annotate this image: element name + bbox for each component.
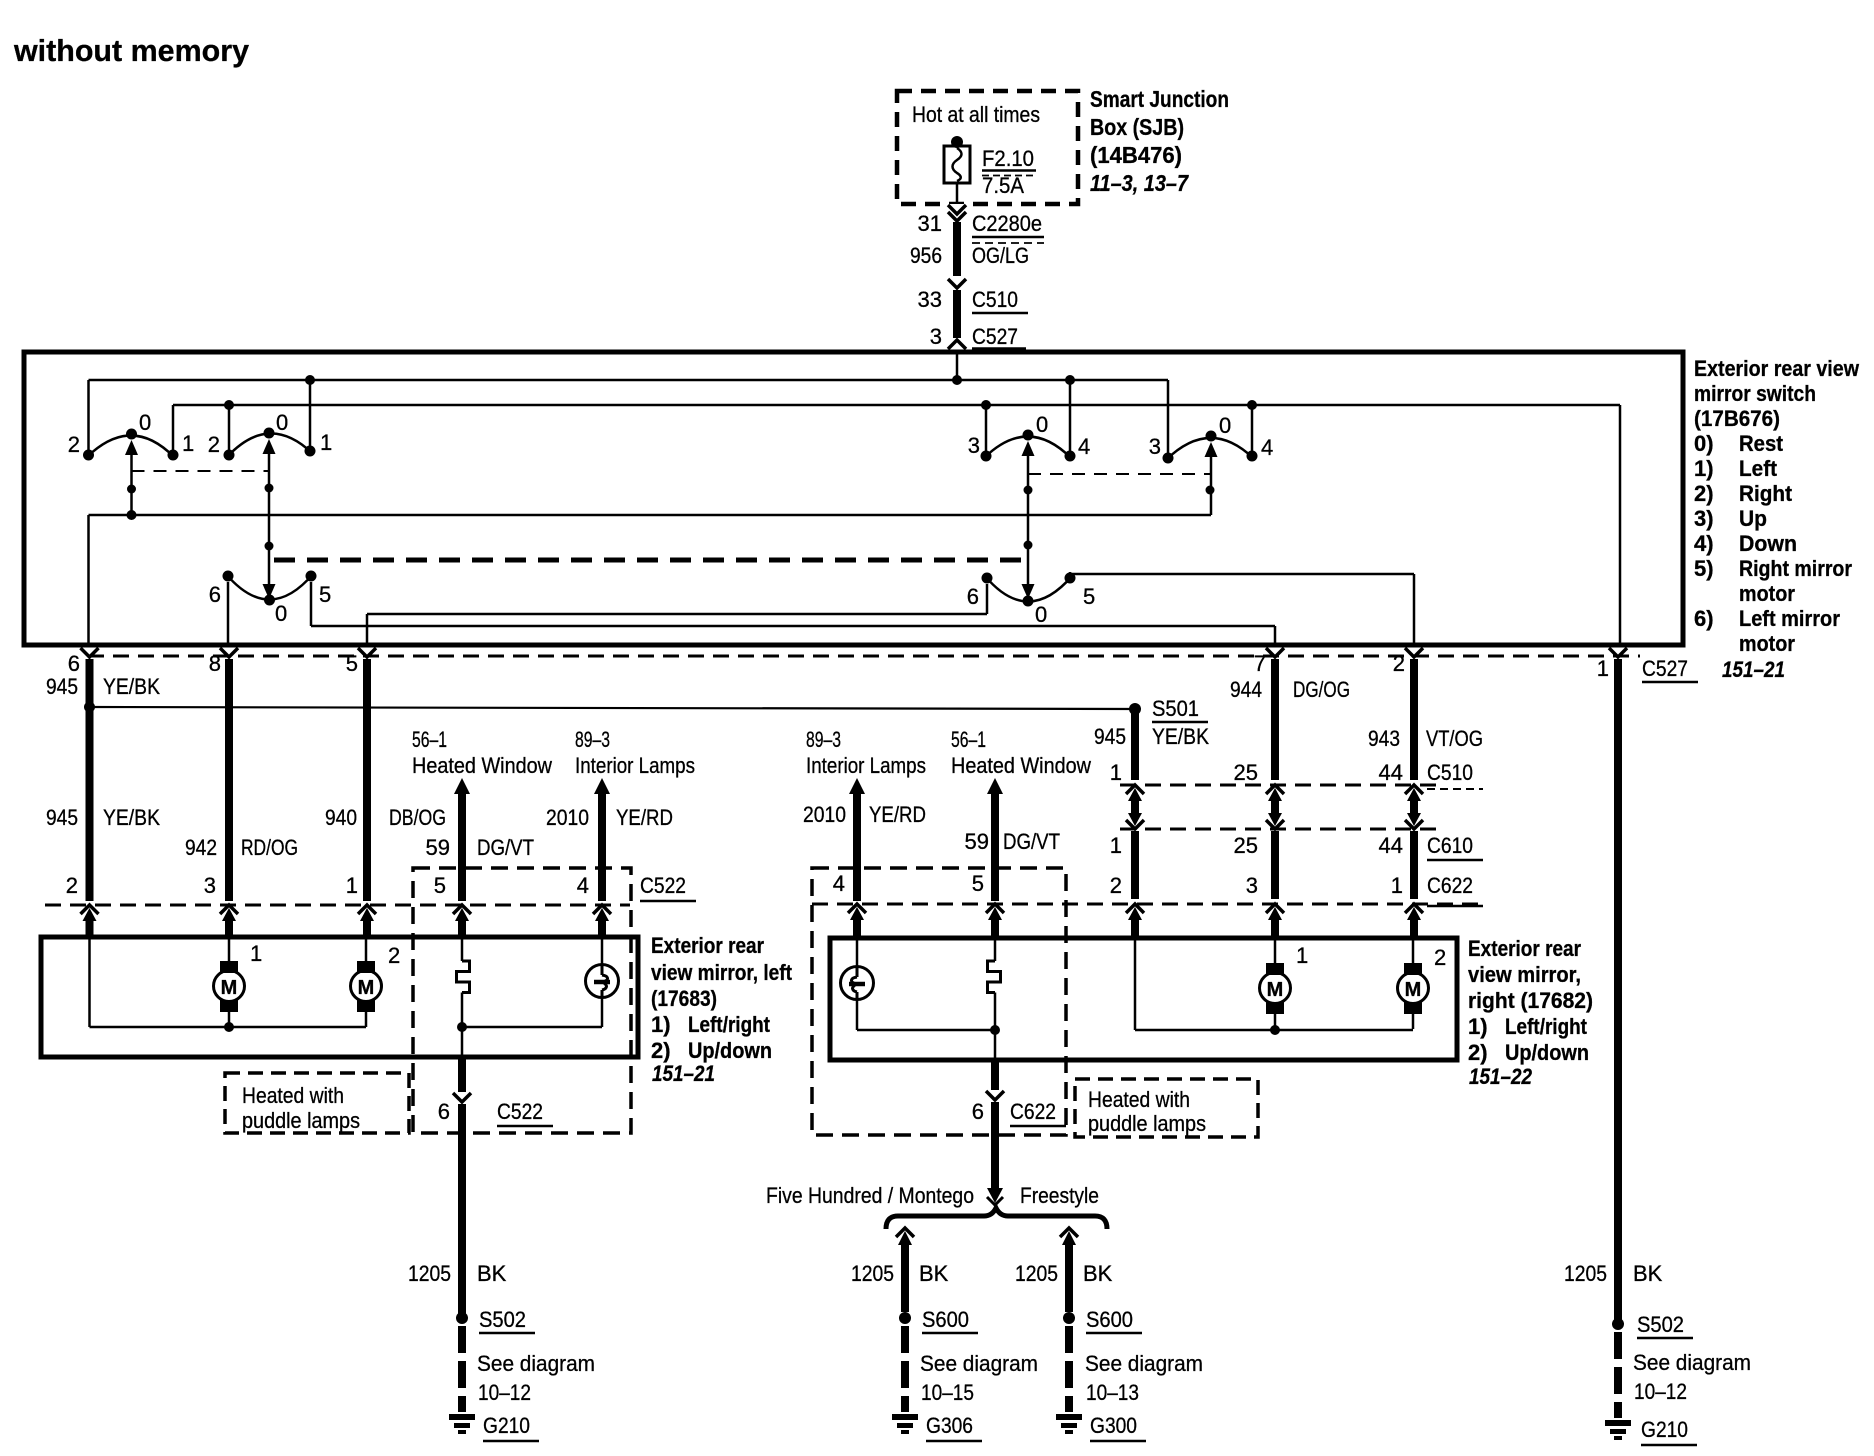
svg-text:3: 3 (930, 324, 942, 349)
svg-text:7: 7 (1254, 651, 1266, 676)
svg-text:945: 945 (1094, 724, 1126, 749)
svg-text:C2280e: C2280e (972, 211, 1042, 236)
exterior rear view mirror left (17683) box (41, 937, 638, 1057)
switch S1 contact 1 wire (168, 405, 179, 461)
svg-text:(14B476): (14B476) (1090, 142, 1182, 168)
svg-text:G300: G300 (1090, 1413, 1137, 1438)
C522 row arrows (81, 905, 612, 921)
C622 pin labels 4 5 (833, 871, 984, 896)
C622 row pin labels 2 3 1 (1110, 873, 1403, 898)
arrow into switch box (948, 338, 966, 350)
svg-text:See diagram: See diagram (920, 1351, 1038, 1376)
svg-text:YE/BK: YE/BK (103, 674, 160, 699)
svg-text:1205: 1205 (1564, 1261, 1607, 1286)
svg-text:945: 945 (46, 805, 78, 830)
svg-text:2: 2 (68, 432, 80, 457)
switch S1 pivot and wiper arrow (125, 429, 138, 521)
svg-text:Box (SJB): Box (SJB) (1090, 114, 1184, 140)
svg-text:BK: BK (919, 1261, 949, 1286)
splice S600 (G306 run) (899, 1307, 978, 1333)
svg-text:44: 44 (1379, 760, 1403, 785)
svg-text:S502: S502 (479, 1307, 526, 1332)
svg-text:5: 5 (346, 651, 358, 676)
svg-text:0: 0 (139, 410, 151, 435)
mechanical link S1-S2 (132, 470, 270, 472)
right mirror motor 1 (1260, 939, 1291, 1029)
svg-text:M: M (221, 977, 238, 999)
wires between C510 and C610 (1135, 800, 1414, 814)
svg-text:3: 3 (1246, 873, 1258, 898)
svg-text:S502: S502 (1637, 1312, 1684, 1337)
svg-text:Up: Up (1739, 506, 1767, 531)
svg-text:1: 1 (1110, 760, 1122, 785)
svg-text:C527: C527 (1642, 656, 1688, 681)
svg-text:DG/VT: DG/VT (1003, 829, 1060, 854)
svg-text:1: 1 (320, 430, 332, 455)
svg-text:56–1: 56–1 (412, 727, 447, 752)
wires between C610 and C622 (1135, 831, 1414, 899)
svg-text:DG/VT: DG/VT (477, 835, 534, 860)
svg-text:6: 6 (209, 582, 221, 607)
switch S2 contact 1 wire (305, 375, 316, 457)
svg-text:2010: 2010 (803, 802, 846, 827)
svg-text:Up/down: Up/down (688, 1038, 772, 1063)
right motor-select labels 6 0 5 (967, 584, 1096, 627)
svg-text:4): 4) (1694, 531, 1714, 556)
svg-text:0: 0 (1036, 412, 1048, 437)
switch S3 position labels 3 0 4 (968, 412, 1091, 459)
wire bus line B (173, 404, 1620, 407)
wire 943 VT/OG from pin 2 (1410, 659, 1418, 780)
svg-text:5: 5 (1083, 584, 1095, 609)
svg-text:4: 4 (1078, 434, 1090, 459)
svg-text:M: M (358, 977, 375, 999)
svg-text:1: 1 (1296, 943, 1308, 968)
C622 row arrows (848, 904, 1423, 920)
switch S4 wiper arc (1166, 438, 1253, 460)
C522 pin 6 label row (438, 1099, 553, 1126)
svg-text:1: 1 (250, 941, 262, 966)
svg-text:M: M (1405, 979, 1422, 1001)
svg-text:6: 6 (438, 1099, 450, 1124)
splice S502 (left) (456, 1307, 535, 1333)
connector C622 boundary (dashed) (812, 903, 1480, 906)
ground G300 (1056, 1414, 1082, 1420)
svg-text:See diagram: See diagram (1085, 1351, 1203, 1376)
svg-text:Exterior rear: Exterior rear (651, 933, 764, 958)
svg-text:6: 6 (68, 651, 80, 676)
svg-text:1): 1) (651, 1012, 671, 1037)
svg-text:10–12: 10–12 (1634, 1379, 1687, 1404)
dashed ground lead to G210 (left) (458, 1326, 466, 1412)
wire 942 RD/OG from pin 8 (225, 659, 233, 901)
svg-text:Hot at all times: Hot at all times (912, 102, 1040, 127)
splice S501 label (1152, 696, 1208, 722)
wire label: 945 YE/BK (lower) (46, 805, 160, 830)
wire label: 942 RD/OG (185, 835, 298, 860)
svg-text:view mirror, left: view mirror, left (651, 960, 793, 985)
svg-text:0: 0 (1035, 602, 1047, 627)
svg-text:C510: C510 (972, 287, 1018, 312)
splice S502 (right) (1612, 1312, 1693, 1338)
svg-text:8: 8 (209, 651, 221, 676)
svg-text:945: 945 (46, 674, 78, 699)
svg-text:Exterior rear view: Exterior rear view (1694, 356, 1860, 381)
wire 945 YE/BK below S501 (1131, 709, 1139, 780)
svg-text:1205: 1205 (1015, 1261, 1058, 1286)
svg-text:(17B676): (17B676) (1694, 406, 1780, 431)
svg-text:5: 5 (319, 582, 331, 607)
off-page arrow: 89-3 Interior Lamps (right) (806, 727, 926, 901)
C510 row pin labels 1 25 44 (1110, 760, 1403, 785)
svg-text:YE/RD: YE/RD (869, 802, 926, 827)
svg-text:0: 0 (276, 410, 288, 435)
svg-text:C622: C622 (1427, 873, 1473, 898)
svg-text:59: 59 (965, 829, 989, 854)
left mirror text block (651, 933, 793, 1086)
SJB name text block (1090, 86, 1229, 196)
wire label 956 OG/LG (910, 243, 1029, 268)
heated with puddle lamps label box (left) (225, 1073, 409, 1133)
wire bus line A (top) (89, 379, 1169, 382)
switch S3 contact 3 wire (981, 400, 992, 462)
svg-text:S600: S600 (922, 1307, 969, 1332)
wire label: 944 DG/OG (1230, 677, 1350, 702)
svg-text:Exterior rear: Exterior rear (1468, 936, 1581, 961)
svg-text:1205: 1205 (408, 1261, 451, 1286)
ground G210 (right) (1605, 1420, 1631, 1426)
connector C527 label and page ref (1642, 656, 1785, 682)
heated/puddle option dashed enclosure (right) (812, 868, 1066, 1135)
svg-text:3: 3 (204, 873, 216, 898)
switch S1 contact 2 wire (83, 380, 94, 461)
ground label G210 (left) (483, 1413, 539, 1441)
svg-text:6): 6) (1694, 606, 1714, 631)
see diagram note (G300) (1085, 1351, 1203, 1405)
svg-text:4: 4 (833, 871, 845, 896)
switch S2 pivot, wiper arrow and link to up/down switch (263, 428, 276, 600)
svg-text:RD/OG: RD/OG (241, 835, 298, 860)
mechanical link between motor-select switches (bold dashed) (274, 558, 1023, 563)
svg-text:BK: BK (1083, 1261, 1113, 1286)
svg-text:See diagram: See diagram (1633, 1350, 1751, 1375)
connector C522 label (640, 873, 696, 901)
svg-text:1: 1 (1391, 873, 1403, 898)
svg-text:7.5A: 7.5A (982, 173, 1024, 198)
svg-text:5: 5 (972, 871, 984, 896)
connector C610 boundary (dashed) (1120, 828, 1445, 831)
svg-text:YE/BK: YE/BK (1152, 724, 1209, 749)
off-page arrow: 56-1 Heated Window (right) (951, 727, 1091, 901)
svg-text:See diagram: See diagram (477, 1351, 595, 1376)
svg-text:Left/right: Left/right (688, 1012, 771, 1037)
wire 1205 BK to G300 (1060, 1228, 1078, 1312)
svg-text:Five Hundred / Montego: Five Hundred / Montego (766, 1183, 974, 1208)
brace splitting models (886, 1208, 1107, 1229)
arrow into model split (987, 1188, 1003, 1205)
svg-text:Left/right: Left/right (1505, 1014, 1588, 1039)
svg-text:right (17682): right (17682) (1468, 988, 1593, 1013)
heated with puddle lamps label box (right) (1075, 1079, 1258, 1137)
switch S2 contact 2 wire (224, 400, 235, 461)
svg-text:1: 1 (182, 431, 194, 456)
svg-text:Left mirror: Left mirror (1739, 606, 1840, 631)
svg-text:943: 943 (1368, 726, 1400, 751)
C610 row pin labels 1 25 44 (1110, 833, 1403, 858)
wire label: 2010 YE/RD (left) (546, 805, 673, 830)
left mirror common bus 945 (90, 938, 367, 1032)
wire: left 5-contact across to pin 7 (311, 582, 1275, 645)
right mirror common bus 945 (1135, 939, 1413, 1035)
switch S2 wiper arc (227, 433, 312, 457)
right mirror motor 2 (1398, 939, 1429, 1029)
wire: bus C to pin 6 (87, 515, 90, 645)
arrows out of C527 on each pin wire (81, 648, 1628, 657)
svg-text:Heated with: Heated with (1088, 1087, 1190, 1112)
wire 944 DG/OG from pin 7 (1271, 659, 1279, 780)
svg-text:4: 4 (577, 873, 589, 898)
svg-text:motor: motor (1739, 631, 1795, 656)
splice S600 (G300 run) (1063, 1307, 1142, 1333)
heated/puddle option dashed enclosure (left) (413, 868, 631, 1133)
exterior rear view mirror right (17682) box (830, 938, 1457, 1060)
connector C510 label row: 33 C510 (918, 287, 1028, 313)
svg-text:56–1: 56–1 (951, 727, 986, 752)
svg-text:944: 944 (1230, 677, 1262, 702)
svg-text:Interior Lamps: Interior Lamps (806, 753, 926, 778)
right heated window element (988, 939, 1001, 1060)
svg-text:151–22: 151–22 (1469, 1064, 1533, 1089)
svg-text:3): 3) (1694, 506, 1714, 531)
svg-text:Interior Lamps: Interior Lamps (575, 753, 695, 778)
ground label G300 (1090, 1413, 1146, 1441)
see diagram note (left) (477, 1351, 595, 1405)
svg-text:2: 2 (1393, 651, 1405, 676)
svg-text:25: 25 (1234, 760, 1258, 785)
svg-text:0: 0 (275, 601, 287, 626)
svg-text:view mirror,: view mirror, (1468, 962, 1581, 987)
svg-text:Left: Left (1739, 456, 1778, 481)
svg-text:C510: C510 (1427, 760, 1473, 785)
svg-text:C622: C622 (1010, 1099, 1056, 1124)
svg-text:2: 2 (66, 873, 78, 898)
left motor-select labels 6 0 5 (209, 582, 332, 626)
svg-text:3: 3 (1149, 434, 1161, 459)
svg-text:33: 33 (918, 287, 942, 312)
switch S4 contact 4 wire (1247, 400, 1258, 462)
svg-text:Heated with: Heated with (242, 1083, 344, 1108)
svg-text:2: 2 (1434, 945, 1446, 970)
wire label: 945 YE/BK (right) (1094, 724, 1209, 749)
left heated window element (457, 938, 470, 1058)
svg-text:C522: C522 (640, 873, 686, 898)
C610 row arrows (1126, 813, 1423, 829)
ground G306 (892, 1414, 918, 1420)
svg-text:1: 1 (346, 873, 358, 898)
right motor-select wiper arc and pivot (985, 576, 1072, 607)
switch S4 contact 3 wire (1163, 380, 1174, 464)
see diagram note (right) (1633, 1350, 1751, 1404)
svg-text:4: 4 (1261, 435, 1273, 460)
dashed ground lead to G306 (901, 1326, 909, 1412)
svg-text:S600: S600 (1086, 1307, 1133, 1332)
switch S4 position labels 3 0 4 (1149, 413, 1274, 460)
switch S4 pivot and wiper arrow (1205, 431, 1218, 516)
svg-text:151–21: 151–21 (652, 1061, 715, 1086)
svg-text:Smart Junction: Smart Junction (1090, 86, 1229, 112)
see diagram note (G306) (920, 1351, 1038, 1405)
fuse value labels F2.10 / 7.5A (982, 146, 1036, 198)
svg-text:Right mirror: Right mirror (1739, 556, 1852, 581)
svg-text:5: 5 (434, 873, 446, 898)
svg-text:puddle lamps: puddle lamps (1088, 1111, 1206, 1136)
svg-text:BK: BK (1633, 1261, 1663, 1286)
svg-text:10–13: 10–13 (1086, 1380, 1139, 1405)
Smart Junction Box (SJB) dashed enclosure (897, 91, 1078, 204)
ground G210 (left) (449, 1414, 475, 1420)
wire: bus B to pin 1 (1619, 405, 1622, 645)
wire label: 940 DB/OG (325, 805, 446, 830)
wire: right 6-contact across to pin 5 (367, 584, 987, 645)
svg-text:5): 5) (1694, 556, 1714, 581)
wire 1205 BK below left mirror (C522 pin 6) (453, 1058, 471, 1316)
wire label: 59 DG/VT (left) (426, 835, 534, 860)
C622 pin 6 label row (972, 1099, 1066, 1126)
dashed ground lead to G210 (right) (1614, 1332, 1622, 1418)
svg-text:Freestyle: Freestyle (1020, 1183, 1099, 1208)
wires from C522 into left mirror (90, 919, 603, 938)
svg-text:C522: C522 (497, 1099, 543, 1124)
svg-text:2: 2 (1110, 873, 1122, 898)
svg-text:Up/down: Up/down (1505, 1040, 1589, 1065)
svg-text:11–3, 13–7: 11–3, 13–7 (1090, 170, 1189, 196)
model labels Five Hundred / Montego and Freestyle (766, 1183, 1099, 1208)
svg-text:1): 1) (1694, 456, 1714, 481)
svg-text:YE/RD: YE/RD (616, 805, 673, 830)
C522 pin labels 2 3 1 5 4 (66, 873, 589, 898)
wire: right 5-contact across to pin 2 (1070, 572, 1414, 645)
svg-text:puddle lamps: puddle lamps (242, 1108, 360, 1133)
wire label 1205 BK (right) (1564, 1261, 1663, 1286)
wire label 1205 BK (left) (408, 1261, 507, 1286)
wire: left 6-contact to pin 8 (227, 582, 230, 645)
ground label G306 (926, 1413, 982, 1441)
svg-text:10–12: 10–12 (478, 1380, 531, 1405)
wire label 1205 BK (G300 run) (1015, 1261, 1113, 1286)
C527 pin number labels (68, 651, 1609, 681)
switch S2 position labels 2 0 1 (208, 410, 333, 457)
svg-text:44: 44 (1379, 833, 1403, 858)
switch S1 position labels 2 0 1 (68, 410, 195, 457)
wires from C622 into right mirror (lamp and heater) (857, 919, 995, 938)
svg-text:mirror switch: mirror switch (1694, 381, 1816, 406)
svg-text:DG/OG: DG/OG (1293, 677, 1350, 702)
svg-text:2010: 2010 (546, 805, 589, 830)
arrow into C510 (948, 276, 966, 290)
left motor-select switch 6-0-5 contacts (223, 571, 317, 582)
svg-text:31: 31 (918, 211, 942, 236)
svg-text:G210: G210 (483, 1413, 530, 1438)
right motor-select switch 6-0-5 contacts (982, 573, 1076, 584)
off-page arrow: 89-3 Interior Lamps (left) (575, 727, 695, 901)
off-page arrow: 56-1 Heated Window (left) (412, 727, 552, 901)
svg-text:0): 0) (1694, 431, 1714, 456)
splice S501 tap line (90, 703, 1142, 715)
connector C622 label (1427, 873, 1483, 906)
svg-text:Right: Right (1739, 481, 1793, 506)
svg-text:DB/OG: DB/OG (389, 805, 446, 830)
svg-text:1205: 1205 (851, 1261, 894, 1286)
wire label: 945 YE/BK (upper) (46, 674, 160, 699)
fuse F2.10 7.5A (944, 136, 970, 183)
wire label: 59 DG/VT (right) (965, 829, 1060, 854)
svg-text:1: 1 (1597, 656, 1609, 681)
svg-text:89–3: 89–3 (806, 727, 841, 752)
svg-text:G306: G306 (926, 1413, 973, 1438)
left mirror motor 2 (351, 937, 382, 1027)
right mirror text block (1468, 936, 1593, 1089)
wire 940 DB/OG from pin 5 (363, 659, 371, 901)
svg-text:3: 3 (968, 433, 980, 458)
svg-text:25: 25 (1234, 833, 1258, 858)
svg-text:89–3: 89–3 (575, 727, 610, 752)
svg-text:VT/OG: VT/OG (1426, 726, 1483, 751)
wires from C622 into right mirror (1135, 919, 1414, 938)
switch S1 wiper arc (87, 436, 174, 458)
connector C527 boundary (dashed) (88, 655, 1640, 658)
exterior rear view mirror switch box (17B676) (24, 352, 1683, 645)
connector C522 boundary (dashed) (45, 904, 630, 907)
svg-text:without memory: without memory (13, 33, 250, 68)
svg-text:151–21: 151–21 (1722, 657, 1785, 682)
svg-text:F2.10: F2.10 (982, 146, 1034, 171)
svg-text:S501: S501 (1152, 696, 1199, 721)
switch S3 contact 4 wire (1065, 375, 1076, 462)
connector C2280e label row: 31 C2280e (918, 211, 1044, 243)
svg-text:942: 942 (185, 835, 217, 860)
connector C510 label (1427, 760, 1483, 789)
wire 1205 BK from pin 1 (right) (1614, 659, 1622, 1320)
svg-text:1): 1) (1468, 1014, 1488, 1039)
svg-text:956: 956 (910, 243, 942, 268)
connector C510 boundary (dashed) (1120, 784, 1445, 787)
svg-text:2: 2 (208, 432, 220, 457)
svg-text:Down: Down (1739, 531, 1797, 556)
left motor-select wiper arc and pivot (226, 574, 313, 606)
svg-text:6: 6 (967, 584, 979, 609)
C510 row arrows (1126, 785, 1423, 801)
svg-text:6: 6 (972, 1099, 984, 1124)
wire 956 OG/LG feed from fuse (956, 183, 959, 340)
svg-text:2): 2) (1694, 481, 1714, 506)
svg-text:YE/BK: YE/BK (103, 805, 160, 830)
wire label 1205 BK (G306 run) (851, 1261, 949, 1286)
svg-text:Heated Window: Heated Window (412, 753, 552, 778)
svg-text:C610: C610 (1427, 833, 1473, 858)
switch legend text (1694, 356, 1860, 656)
wire 1205 BK below right mirror (C622 pin 6) (986, 1060, 1004, 1188)
splice node on 945 at S501 tap (84, 702, 95, 713)
arrow into C2280e (948, 204, 966, 222)
wire 1205 BK to G306 (896, 1228, 914, 1312)
svg-text:G210: G210 (1641, 1417, 1688, 1442)
left mirror motor 1 (214, 937, 245, 1027)
svg-text:BK: BK (477, 1261, 507, 1286)
left puddle lamp (457, 938, 619, 1032)
switch S3 wiper arc (984, 437, 1071, 459)
svg-text:(17683): (17683) (651, 986, 717, 1011)
svg-text:Rest: Rest (1739, 431, 1784, 456)
